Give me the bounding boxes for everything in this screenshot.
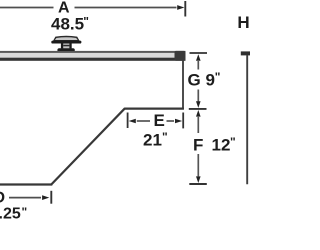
- tank bottom left: [0, 183, 52, 185]
- tank bottom step: [124, 107, 184, 109]
- dimension E: [128, 113, 184, 129]
- filler cap: [51, 36, 81, 52]
- svg-text:21: 21: [143, 131, 162, 150]
- end view top lip: [241, 51, 250, 55]
- svg-text:": ": [22, 205, 28, 219]
- tank top rail: [0, 51, 186, 61]
- svg-text:.25: .25: [0, 206, 21, 223]
- svg-text:": ": [83, 15, 89, 29]
- svg-text:D: D: [0, 190, 5, 207]
- dimension G: [189, 53, 207, 109]
- dimension F: [189, 110, 207, 184]
- svg-text:H: H: [237, 13, 249, 32]
- svg-text:F: F: [193, 136, 203, 155]
- svg-text:": ": [162, 130, 168, 144]
- svg-text:": ": [230, 135, 236, 149]
- end view left side: [246, 55, 248, 184]
- svg-text:": ": [215, 70, 221, 84]
- svg-text:48.5: 48.5: [51, 15, 84, 34]
- dimension D: [9, 191, 51, 204]
- tank diagonal: [51, 108, 125, 184]
- svg-text:G 9: G 9: [188, 71, 215, 90]
- svg-text:12: 12: [212, 136, 231, 155]
- tank right side: [182, 61, 184, 110]
- svg-text:E: E: [154, 111, 165, 130]
- dimension line A: [0, 1, 185, 17]
